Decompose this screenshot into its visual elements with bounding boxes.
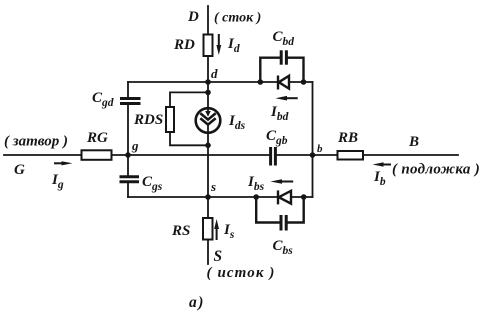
- svg-text:RB: RB: [337, 130, 358, 146]
- junction Cbs right: [301, 194, 307, 200]
- wire D lead: [207, 6, 209, 35]
- capacitor Cbs: [281, 215, 286, 231]
- wire s to RS and S lead: [207, 240, 209, 265]
- resistor RDS: [166, 107, 174, 132]
- arrow Id: [216, 34, 221, 55]
- arrow Ib: [373, 162, 392, 166]
- node g junction: [125, 152, 131, 158]
- svg-text:( подложка ): ( подложка ): [392, 162, 480, 178]
- svg-text:RD: RD: [173, 37, 195, 53]
- resistor RS: [203, 218, 213, 240]
- wire top rail: [128, 81, 313, 83]
- svg-text:B: B: [408, 134, 419, 150]
- svg-text:Id: Id: [227, 36, 240, 55]
- arrow Is: [214, 219, 219, 240]
- svg-text:D: D: [187, 9, 199, 25]
- svg-text:s: s: [210, 179, 216, 194]
- svg-text:Cgd: Cgd: [92, 90, 114, 109]
- capacitor Cgs: [120, 177, 140, 182]
- wire main vertical d to current source: [207, 82, 209, 115]
- svg-text:G: G: [14, 162, 25, 178]
- svg-text:RG: RG: [86, 130, 108, 146]
- capacitor Cgb: [271, 147, 276, 166]
- wire RB to B terminal: [363, 154, 458, 156]
- junction RDS top: [205, 90, 211, 96]
- wire bottom rail: [128, 196, 313, 198]
- node s junction: [205, 194, 211, 200]
- svg-text:g: g: [131, 138, 139, 153]
- resistor RD: [204, 35, 213, 57]
- junction RDS bottom: [205, 143, 211, 149]
- wire Cgd to node g: [127, 104, 129, 156]
- svg-text:Cgb: Cgb: [266, 128, 288, 147]
- arrow Ig: [54, 161, 73, 165]
- svg-text:( затвор ): ( затвор ): [4, 134, 68, 150]
- svg-text:b: b: [317, 143, 323, 155]
- svg-text:Cbs: Cbs: [273, 238, 294, 257]
- svg-text:а): а): [189, 294, 205, 311]
- svg-text:( сток ): ( сток ): [214, 11, 261, 26]
- svg-text:Is: Is: [223, 222, 235, 241]
- wire Cgb to node b: [277, 154, 313, 156]
- wire right column: [312, 82, 314, 197]
- svg-text:d: d: [211, 66, 218, 81]
- svg-text:Ib: Ib: [373, 169, 386, 188]
- node b junction: [310, 152, 316, 158]
- arrow Ibd: [275, 96, 297, 101]
- node d junction: [205, 79, 211, 85]
- diode bd (top, pointing left): [278, 76, 289, 90]
- svg-text:S: S: [214, 248, 223, 265]
- capacitor Cgd: [120, 99, 141, 104]
- junction Cbd left: [258, 79, 264, 85]
- svg-text:Ibd: Ibd: [270, 104, 289, 123]
- wire node g to Cgs: [127, 155, 129, 177]
- current source arrowhead: [205, 111, 211, 117]
- svg-text:Cbd: Cbd: [273, 29, 295, 48]
- capacitor Cbd loop: [260, 58, 303, 82]
- svg-text:Cgs: Cgs: [142, 174, 163, 193]
- capacitor Cbs loop: [256, 197, 304, 223]
- wire current source to RS: [207, 124, 209, 218]
- svg-text:RS: RS: [171, 223, 190, 239]
- wire Cgs to bottom rail: [127, 182, 129, 198]
- current source Ids: [196, 108, 221, 133]
- wire RG to Cgb: [112, 154, 270, 156]
- resistor RB: [338, 151, 364, 160]
- junction Cbd right: [301, 79, 307, 85]
- diode bs (bottom, pointing left): [278, 190, 291, 204]
- svg-text:Ids: Ids: [228, 113, 246, 132]
- junction Cbs left: [253, 194, 259, 200]
- capacitor Cbd: [281, 50, 286, 64]
- wire left column upper (node d rail to Cgd): [127, 82, 129, 99]
- wire gate lead G to RG: [4, 154, 82, 156]
- arrow Ibs: [270, 179, 293, 184]
- wire RD to node d: [207, 56, 209, 82]
- svg-text:RDS: RDS: [133, 112, 163, 128]
- wire node b to RB: [313, 154, 338, 156]
- resistor RG: [82, 150, 112, 160]
- svg-text:Ibs: Ibs: [247, 174, 265, 193]
- resistor RDS loop wires: [170, 92, 208, 145]
- svg-text:( исток ): ( исток ): [207, 265, 276, 281]
- svg-text:Ig: Ig: [51, 172, 64, 191]
